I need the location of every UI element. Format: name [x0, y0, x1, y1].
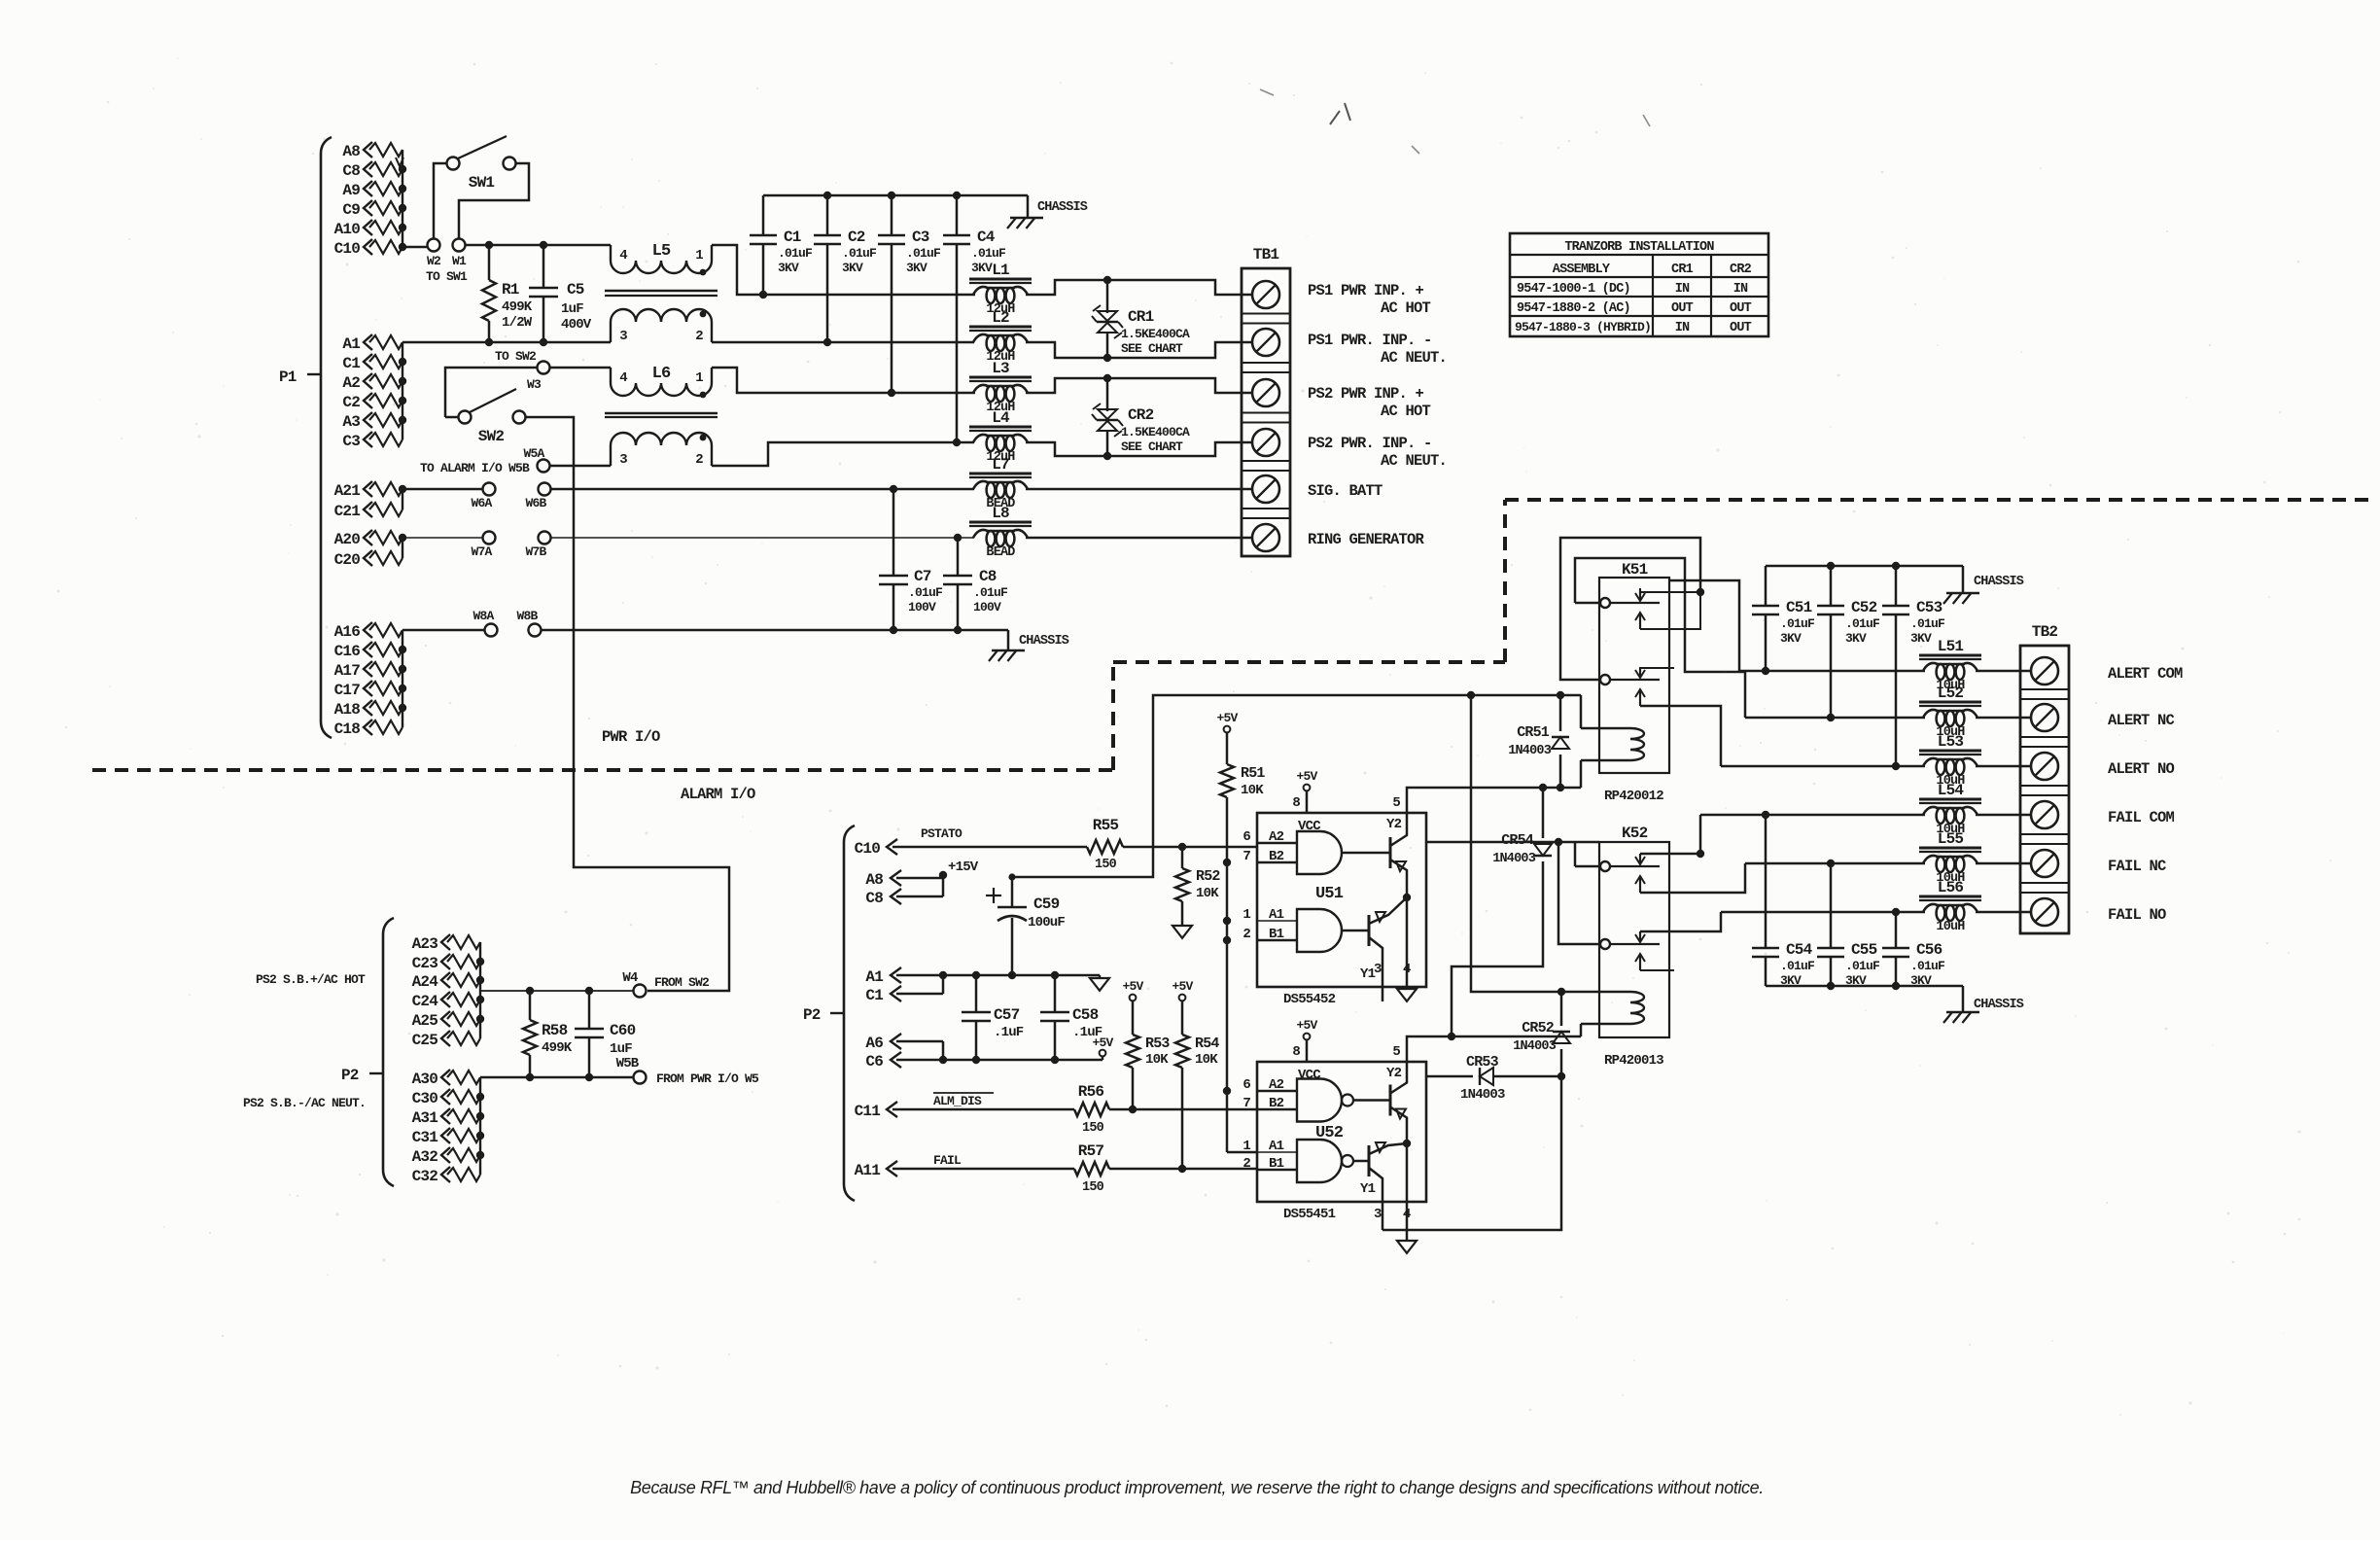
svg-text:100V: 100V — [908, 600, 936, 614]
svg-text:OUT: OUT — [1730, 301, 1752, 316]
svg-text:RING GENERATOR: RING GENERATOR — [1308, 531, 1425, 548]
svg-text:R58: R58 — [542, 1022, 568, 1039]
svg-text:2: 2 — [695, 452, 703, 468]
svg-text:A3: A3 — [342, 413, 360, 431]
svg-text:W7B: W7B — [525, 544, 546, 559]
wire L8 to RING GENERATOR terminal — [1026, 537, 1252, 540]
svg-text:C21: C21 — [334, 503, 361, 520]
wire L56 row — [1721, 911, 1925, 914]
svg-text:FAIL NC: FAIL NC — [2108, 858, 2166, 875]
svg-text:C9: C9 — [342, 201, 360, 219]
svg-text:C17: C17 — [334, 682, 361, 699]
capacitor C7 — [892, 489, 895, 576]
chassis ground top — [1027, 195, 1030, 218]
capacitor C52 — [1830, 566, 1833, 606]
wire L1 out jog with CR1 top — [1026, 280, 1252, 295]
svg-text:RP420012: RP420012 — [1604, 789, 1663, 804]
wire L54 row — [1700, 814, 1925, 817]
wire L5 pin2 to PS1 neutral row — [712, 341, 974, 344]
svg-text:DS55452: DS55452 — [1283, 992, 1336, 1007]
inductor L56 — [1919, 895, 1981, 898]
TB2 screw terminal 1 — [2031, 657, 2058, 685]
svg-text:IN: IN — [1675, 282, 1690, 297]
capacitor C1 — [762, 195, 765, 235]
jumper post W1 — [453, 239, 466, 252]
wire U51 pin5 riser to drive rail — [1407, 788, 1581, 813]
svg-text:FROM SW2: FROM SW2 — [654, 975, 710, 990]
svg-text:ALERT COM: ALERT COM — [2108, 665, 2183, 683]
K52 NC2 staircase to FAIL NO row — [1640, 912, 1721, 931]
svg-text:3KV: 3KV — [906, 261, 927, 275]
svg-text:C5: C5 — [567, 281, 584, 298]
svg-text:L1: L1 — [992, 262, 1009, 279]
svg-text:3KV: 3KV — [971, 261, 993, 275]
TB1 screw terminal 2 — [1252, 329, 1279, 356]
svg-text:R57: R57 — [1078, 1142, 1104, 1160]
K51 NO2 staircase to ALERT NO row — [1640, 706, 1721, 766]
svg-text:A9: A9 — [342, 182, 360, 199]
svg-text:10K: 10K — [1195, 1052, 1218, 1068]
jumper post W5B — [634, 1071, 647, 1084]
TB1 screw terminal 5 — [1252, 475, 1279, 503]
svg-text:.01uF: .01uF — [842, 246, 877, 261]
resistor R52 — [1181, 847, 1184, 868]
jumper post W3 — [538, 362, 550, 374]
svg-text:9547-1000-1 (DC): 9547-1000-1 (DC) — [1517, 282, 1630, 297]
svg-text:7: 7 — [1242, 849, 1250, 864]
K52 NO1 staircase to FAIL NC row — [1640, 863, 1745, 893]
svg-text:A8: A8 — [865, 871, 883, 889]
svg-text:ALERT NO: ALERT NO — [2108, 760, 2175, 778]
wire L52 row — [1745, 717, 1925, 720]
svg-text:400V: 400V — [561, 317, 592, 333]
wire L7 to SIG BATT terminal — [1026, 488, 1252, 491]
svg-text:2: 2 — [1242, 1156, 1250, 1172]
wire U52 pin5 riser to K52 drive rail — [1407, 1036, 1581, 1062]
svg-text:C60: C60 — [610, 1022, 636, 1039]
svg-text:U51: U51 — [1315, 885, 1344, 903]
svg-text:3: 3 — [619, 329, 627, 344]
wire A6/C6 join — [896, 1040, 943, 1043]
capacitor C57 — [975, 975, 978, 1012]
svg-text:IN: IN — [1675, 321, 1690, 335]
svg-text:Y2: Y2 — [1386, 817, 1402, 832]
svg-text:K51: K51 — [1622, 561, 1648, 579]
svg-text:C23: C23 — [412, 955, 438, 972]
svg-text:C2: C2 — [342, 394, 360, 411]
wire W1 to L5 pin4 and R1/C5 taps — [465, 244, 611, 247]
wire SW1 right to W1 — [459, 163, 529, 239]
svg-text:PS1 PWR INP. +: PS1 PWR INP. + — [1308, 282, 1424, 299]
svg-text:150: 150 — [1095, 858, 1117, 872]
vertical +15V feed to K52 rail — [1471, 695, 1581, 992]
svg-text:C55: C55 — [1851, 941, 1877, 959]
svg-text:6: 6 — [1242, 829, 1250, 845]
svg-text:SW1: SW1 — [469, 174, 495, 192]
K51 NC2 stub — [1640, 667, 1674, 669]
resistor R1 — [488, 245, 491, 280]
TB1 screw terminal 6 — [1252, 524, 1279, 551]
capacitor C2 — [826, 195, 829, 235]
wire U52 pin3 return rail — [1382, 1076, 1561, 1230]
inductor L53 — [1919, 750, 1981, 753]
svg-text:AC HOT: AC HOT — [1381, 403, 1431, 420]
svg-text:C59: C59 — [1033, 895, 1060, 913]
wire FAIL row / resistor R57 — [892, 1168, 1074, 1171]
svg-text:150: 150 — [1082, 1121, 1104, 1136]
inductor L1 — [969, 278, 1032, 281]
svg-text:1: 1 — [695, 248, 703, 263]
capacitor C4 — [956, 195, 959, 235]
inductor L7 — [969, 473, 1032, 475]
svg-text:L55: L55 — [1938, 830, 1964, 848]
wire C10 row to W2 — [402, 246, 428, 249]
svg-text:4: 4 — [619, 248, 627, 263]
jumper post W4 — [634, 985, 647, 998]
svg-text:100uF: 100uF — [1028, 915, 1065, 931]
svg-text:CHASSIS: CHASSIS — [1037, 200, 1088, 215]
svg-text:IN: IN — [1733, 282, 1748, 297]
wire W3 to L6 pin4 — [550, 367, 611, 369]
svg-text:FAIL NO: FAIL NO — [2108, 906, 2166, 924]
svg-text:C25: C25 — [412, 1032, 438, 1049]
resistor R54 — [1181, 1001, 1184, 1035]
svg-text:Y1: Y1 — [1360, 1181, 1376, 1197]
svg-text:W4: W4 — [622, 970, 638, 986]
svg-text:4: 4 — [1403, 962, 1411, 977]
chassis ground at A16 row — [1007, 630, 1010, 650]
svg-text:A32: A32 — [412, 1148, 438, 1166]
K52 contact 1 — [1600, 861, 1610, 871]
wire L5 pin1 to L1 row — [712, 245, 975, 295]
wire R55 to U51 pin6 — [1123, 846, 1257, 849]
svg-text:10K: 10K — [1196, 886, 1219, 901]
wire PS2 hot row to W4 — [480, 990, 634, 992]
svg-text:TRANZORB INSTALLATION: TRANZORB INSTALLATION — [1564, 240, 1714, 255]
svg-text:FAIL COM: FAIL COM — [2108, 809, 2175, 826]
svg-text:.01uF: .01uF — [1910, 616, 1945, 631]
svg-text:PS2 S.B.-/AC NEUT.: PS2 S.B.-/AC NEUT. — [243, 1096, 366, 1110]
svg-text:L7: L7 — [992, 456, 1009, 474]
wire L6 pin1 to PS2 hot row — [712, 368, 975, 393]
svg-text:+5V: +5V — [1296, 769, 1317, 784]
svg-text:SEE CHART: SEE CHART — [1121, 341, 1183, 356]
svg-text:CR53: CR53 — [1466, 1054, 1499, 1071]
svg-text:C18: C18 — [334, 720, 361, 738]
resistor R58 — [529, 991, 532, 1020]
wire A1/C1 ground row — [943, 974, 1100, 977]
svg-text:.01uF: .01uF — [973, 585, 1008, 600]
svg-text:L8: L8 — [992, 505, 1009, 522]
svg-text:AC HOT: AC HOT — [1381, 299, 1431, 317]
capacitor C60 — [588, 991, 591, 1029]
wire L4 out jog with CR2 bottom — [1026, 442, 1252, 456]
svg-text:C4: C4 — [977, 228, 996, 246]
svg-text:2: 2 — [695, 329, 703, 344]
svg-text:W5B: W5B — [616, 1056, 640, 1071]
svg-text:C24: C24 — [412, 993, 439, 1010]
ground at A1/C1 row — [1099, 975, 1102, 978]
svg-text:5: 5 — [1392, 795, 1400, 811]
svg-text:1N4003: 1N4003 — [1508, 744, 1552, 758]
svg-text:R56: R56 — [1078, 1083, 1104, 1101]
svg-text:9547-1880-2 (AC): 9547-1880-2 (AC) — [1517, 301, 1630, 316]
svg-text:2: 2 — [1242, 927, 1250, 942]
K51 contact 1 — [1600, 598, 1610, 608]
+5V stub on C6 row — [1102, 1056, 1104, 1060]
svg-text:3: 3 — [619, 452, 627, 468]
svg-text:Because RFL™ and Hubbell® have: Because RFL™ and Hubbell® have a policy … — [630, 1478, 1764, 1497]
svg-text:3KV: 3KV — [842, 261, 863, 275]
svg-text:RP420013: RP420013 — [1604, 1053, 1663, 1069]
svg-text:C7: C7 — [914, 568, 931, 585]
svg-text:W2: W2 — [427, 254, 441, 268]
svg-text:L2: L2 — [992, 309, 1009, 327]
svg-text:TO SW1: TO SW1 — [426, 269, 468, 284]
svg-text:W5A: W5A — [523, 446, 544, 461]
svg-text:C57: C57 — [994, 1006, 1020, 1024]
K51 common 1 staircase to ALERT NC row — [1575, 558, 1745, 718]
svg-text:.01uF: .01uF — [908, 585, 943, 600]
wire L6 pin2 to PS2 neutral row — [712, 442, 974, 466]
svg-text:A21: A21 — [334, 482, 361, 500]
wire ALM_DIS row / resistor R56 — [892, 1108, 1074, 1111]
resistor R53 — [1132, 1001, 1135, 1035]
svg-text:W6B: W6B — [525, 496, 546, 510]
svg-text:A16: A16 — [334, 623, 361, 641]
svg-text:SIG. BATT: SIG. BATT — [1308, 482, 1382, 500]
svg-text:.1uF: .1uF — [994, 1025, 1024, 1040]
diode CR53 — [1427, 1075, 1473, 1078]
svg-text:PS2 S.B.+/AC HOT: PS2 S.B.+/AC HOT — [256, 972, 366, 987]
svg-text:AC NEUT.: AC NEUT. — [1381, 452, 1447, 470]
wire L55 row — [1745, 862, 1925, 865]
svg-text:A1: A1 — [342, 335, 360, 353]
svg-text:C8: C8 — [342, 162, 360, 180]
svg-text:C3: C3 — [342, 433, 360, 450]
K52 contact 2 — [1600, 939, 1610, 949]
capacitor C8 — [957, 538, 960, 576]
diode CR54 — [1542, 788, 1545, 838]
svg-text:PS2 PWR. INP. -: PS2 PWR. INP. - — [1308, 435, 1432, 452]
svg-text:150: 150 — [1082, 1180, 1104, 1195]
svg-text:.01uF: .01uF — [1780, 959, 1815, 973]
svg-text:A10: A10 — [334, 221, 361, 238]
svg-text:.01uF: .01uF — [971, 246, 1006, 261]
transformer L5 — [611, 245, 712, 273]
svg-text:C31: C31 — [412, 1129, 438, 1146]
inductor L8 — [969, 521, 1032, 524]
svg-text:A6: A6 — [865, 1035, 883, 1052]
svg-text:3KV: 3KV — [1780, 631, 1802, 646]
svg-text:C1: C1 — [784, 228, 801, 246]
inductor L52 — [1919, 701, 1981, 704]
svg-text:C16: C16 — [334, 643, 361, 660]
wire SW2 right to W4 (FROM SW2) — [525, 417, 729, 991]
svg-text:W8A: W8A — [472, 609, 494, 623]
svg-text:P2: P2 — [803, 1006, 821, 1024]
svg-text:TB1: TB1 — [1253, 246, 1279, 263]
svg-text:ALERT NC: ALERT NC — [2108, 712, 2175, 729]
wire L3 out jog with CR2 top — [1026, 378, 1252, 393]
svg-text:L53: L53 — [1938, 733, 1964, 751]
switch SW2 — [459, 411, 472, 424]
wire PS2 neutral row to W5B — [480, 1076, 634, 1079]
svg-text:OUT: OUT — [1671, 301, 1694, 316]
svg-text:C8: C8 — [979, 568, 997, 585]
svg-text:L5: L5 — [652, 242, 671, 261]
svg-text:C51: C51 — [1786, 599, 1812, 616]
wire L2 out jog with CR1 bottom — [1026, 342, 1252, 358]
K52 common 1 feed — [1575, 865, 1600, 868]
diode CR51 — [1559, 695, 1562, 731]
K52 coil — [1630, 992, 1644, 1024]
wire R51 column to U52 pin1 — [1227, 1151, 1257, 1154]
wire +15V rail riser — [1012, 695, 1581, 877]
capacitor C51 — [1765, 566, 1767, 606]
TB1 screw terminal 1 — [1252, 281, 1279, 308]
capacitor C58 — [1054, 975, 1057, 1012]
jumper post W5A — [538, 460, 550, 473]
TB2 screw terminal 3 — [2031, 753, 2058, 780]
wire C6 row — [896, 1059, 1102, 1062]
svg-text:R1: R1 — [502, 281, 519, 298]
K51 contact wiring loop — [1560, 538, 1700, 680]
svg-text:8: 8 — [1292, 795, 1300, 811]
svg-text:5: 5 — [1392, 1044, 1400, 1060]
dashed boundary PWR I/O / ALARM I/O — [92, 768, 1113, 772]
connector P2 bracket (left) — [383, 918, 394, 1186]
switch SW1 — [447, 158, 460, 170]
inductor L55 — [1919, 847, 1981, 850]
capacitor C54 — [1765, 815, 1767, 948]
svg-text:L6: L6 — [652, 365, 671, 383]
inductor L54 — [1919, 798, 1981, 801]
A8/C8 stub — [896, 877, 943, 880]
svg-text:R52: R52 — [1196, 868, 1220, 885]
wire A1 row to L5 pin3 — [402, 341, 611, 344]
svg-text:PWR I/O: PWR I/O — [602, 728, 660, 746]
svg-text:CR51: CR51 — [1517, 724, 1550, 741]
svg-text:.01uF: .01uF — [778, 246, 813, 261]
svg-text:A2: A2 — [342, 374, 360, 392]
inductor L2 — [969, 326, 1032, 329]
svg-text:CR2: CR2 — [1128, 406, 1154, 424]
svg-text:CR1: CR1 — [1128, 308, 1154, 326]
connector P1 bracket — [321, 137, 332, 738]
svg-text:A30: A30 — [412, 1071, 438, 1088]
svg-text:CR52: CR52 — [1522, 1020, 1555, 1036]
svg-text:C1: C1 — [342, 355, 360, 372]
wire A1 row W3 riser — [445, 368, 537, 417]
svg-text:OUT: OUT — [1730, 321, 1752, 335]
svg-text:9547-1880-3 (HYBRID): 9547-1880-3 (HYBRID) — [1515, 320, 1651, 334]
svg-text:1uF: 1uF — [561, 301, 583, 317]
svg-text:BEAD: BEAD — [986, 545, 1015, 560]
K52 NC1 staircase to FAIL COM row — [1640, 815, 1700, 854]
svg-text:CHASSIS: CHASSIS — [1974, 998, 2024, 1012]
svg-text:L4: L4 — [992, 409, 1010, 427]
svg-text:+5V: +5V — [1172, 979, 1193, 994]
svg-text:ALM_DIS: ALM_DIS — [933, 1094, 982, 1108]
svg-text:SW2: SW2 — [478, 428, 505, 445]
driver U51 DS55452 — [1257, 813, 1426, 987]
svg-text:C1: C1 — [865, 987, 883, 1004]
svg-text:C2: C2 — [848, 228, 865, 246]
wire W2 to SW1 left — [434, 163, 446, 239]
svg-text:C20: C20 — [334, 551, 361, 569]
svg-text:PS1 PWR. INP. -: PS1 PWR. INP. - — [1308, 332, 1432, 349]
TB2 screw terminal 2 — [2031, 704, 2058, 731]
svg-text:1N4003: 1N4003 — [1492, 852, 1536, 866]
svg-text:3: 3 — [1374, 962, 1382, 977]
wire A16 row with W8A W8B to chassis — [402, 629, 485, 632]
resistor R55 — [1087, 840, 1123, 854]
TB2 screw terminal 5 — [2031, 850, 2058, 877]
svg-text:K52: K52 — [1622, 825, 1648, 842]
svg-text:C11: C11 — [855, 1103, 881, 1120]
svg-text:W8B: W8B — [516, 609, 538, 623]
svg-text:C6: C6 — [865, 1053, 883, 1071]
svg-text:100V: 100V — [973, 600, 1001, 614]
svg-text:CHASSIS: CHASSIS — [1974, 575, 2024, 589]
capacitor C53 — [1895, 566, 1898, 606]
TB2 screw terminal 4 — [2031, 801, 2058, 828]
svg-text:A25: A25 — [412, 1012, 438, 1030]
svg-text:L3: L3 — [992, 360, 1009, 377]
svg-text:AC NEUT.: AC NEUT. — [1381, 349, 1447, 367]
svg-text:3: 3 — [1374, 1207, 1382, 1222]
TRANZORB INSTALLATION table — [1510, 233, 1768, 336]
svg-text:P1: P1 — [279, 369, 297, 386]
svg-text:+5V: +5V — [1092, 1036, 1113, 1050]
svg-text:1N4003: 1N4003 — [1460, 1087, 1505, 1103]
svg-text:W7A: W7A — [471, 544, 492, 559]
svg-text:FROM PWR I/O W5: FROM PWR I/O W5 — [656, 1071, 759, 1086]
svg-text:FAIL: FAIL — [933, 1153, 962, 1168]
wire L51 row — [1739, 670, 1925, 673]
inductor L3 — [969, 376, 1032, 379]
svg-text:C10: C10 — [855, 840, 881, 858]
svg-text:499K: 499K — [502, 299, 533, 315]
svg-text:+15V: +15V — [948, 860, 979, 875]
svg-text:10uH: 10uH — [1936, 920, 1965, 934]
svg-text:6: 6 — [1242, 1077, 1250, 1093]
svg-text:TB2: TB2 — [2032, 623, 2058, 641]
svg-text:A23: A23 — [412, 935, 438, 953]
svg-text:499K: 499K — [542, 1040, 573, 1056]
wire A20 row with W7A W7B to L8 — [402, 537, 483, 539]
svg-text:1: 1 — [695, 370, 703, 386]
svg-text:C52: C52 — [1851, 599, 1877, 616]
tranzorb CR2 — [1106, 378, 1109, 411]
svg-text:VCC: VCC — [1298, 1068, 1321, 1083]
svg-text:A20: A20 — [334, 531, 361, 548]
svg-text:.01uF: .01uF — [1780, 616, 1815, 631]
svg-text:L51: L51 — [1938, 638, 1964, 655]
svg-text:TO SW2: TO SW2 — [495, 349, 537, 364]
capacitor C59 polarized — [1011, 877, 1014, 907]
svg-text:W1: W1 — [452, 254, 467, 268]
inductor L51 — [1919, 654, 1981, 657]
capacitor C56 — [1895, 912, 1898, 948]
wire L53 row — [1721, 765, 1925, 768]
capacitor C5 — [542, 245, 545, 288]
ground under R52 — [1172, 926, 1192, 938]
ALERT COM hook — [1669, 580, 1739, 671]
TB2 screw terminal 6 — [2031, 898, 2058, 926]
svg-text:SEE CHART: SEE CHART — [1121, 439, 1183, 454]
